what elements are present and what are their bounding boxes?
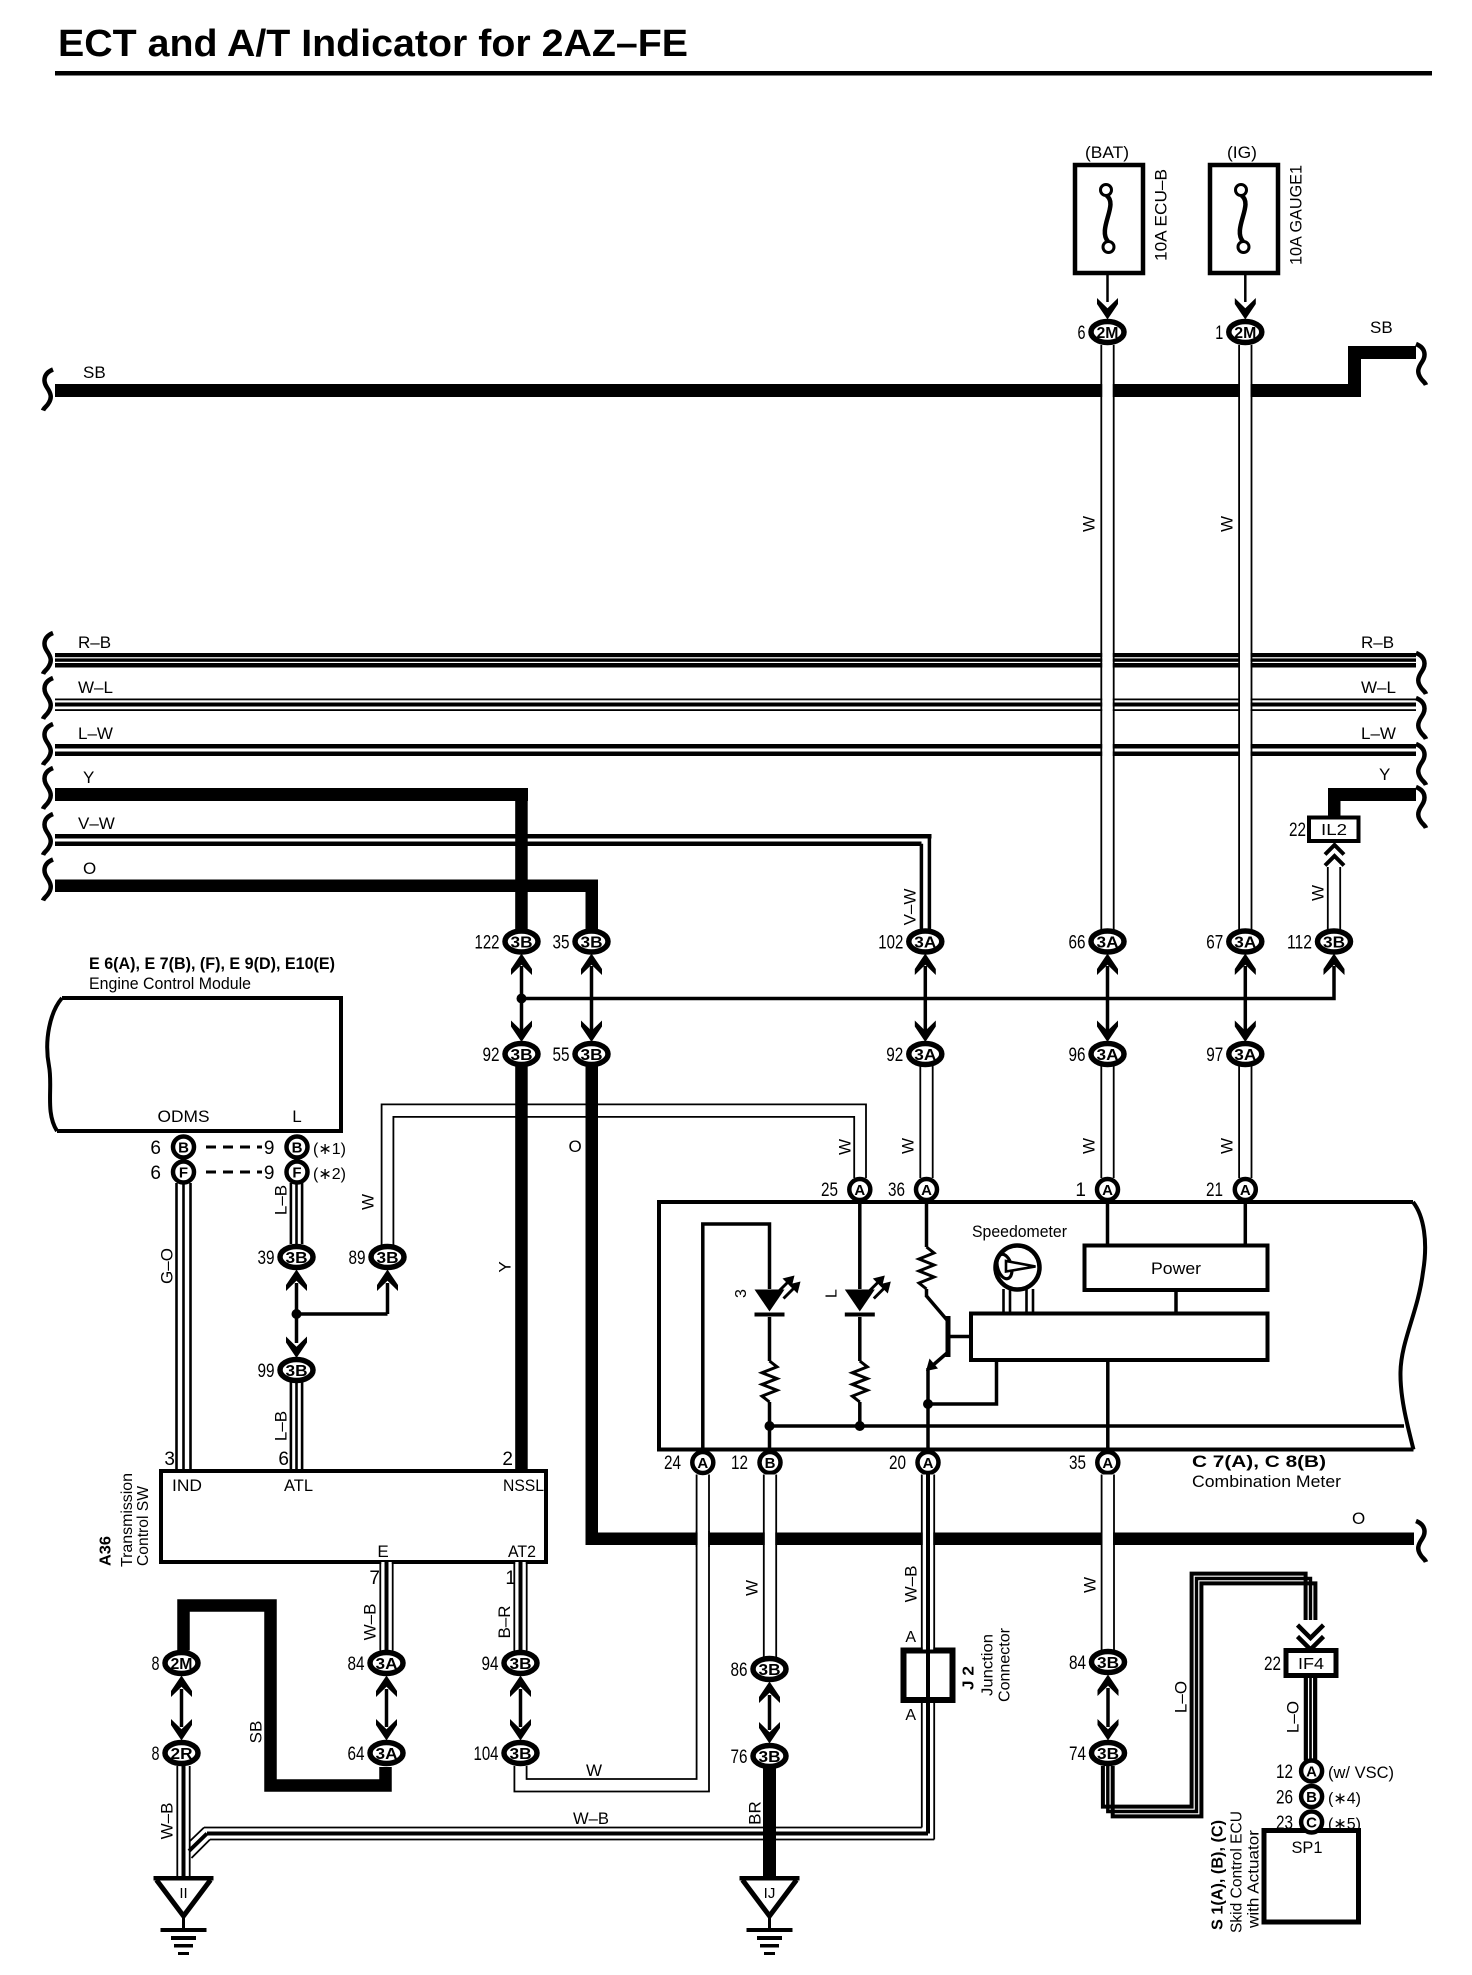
connector 8 2R (165, 1743, 198, 1764)
svg-text:B: B (1306, 1789, 1317, 1806)
svg-text:35: 35 (1069, 1453, 1086, 1474)
svg-text:(IG): (IG) (1227, 143, 1257, 162)
meter pin 20 A (918, 1452, 939, 1473)
wire O (thick, left section) (55, 880, 598, 893)
connector 22 IF4 box (1286, 1651, 1336, 1676)
wire L-B from ECM L to connector 39 (290, 1183, 293, 1244)
svg-text:SB: SB (1370, 318, 1393, 337)
svg-text:F: F (292, 1165, 301, 1182)
svg-text:Transmission: Transmission (119, 1473, 136, 1567)
skid control pin 12 A (w/ VSC) (1301, 1761, 1322, 1782)
wire G-O from ECM ODMS to IND (175, 1183, 178, 1471)
svg-text:(∗2): (∗2) (313, 1166, 346, 1183)
wire O thick vertical from bus to connector 35 and bottom run (586, 880, 599, 930)
svg-text:3A: 3A (376, 1656, 398, 1673)
svg-text:6: 6 (150, 1138, 161, 1159)
svg-text:C 7(A), C 8(B): C 7(A), C 8(B) (1192, 1452, 1326, 1471)
meter pin 25 A (849, 1179, 870, 1200)
connector 55 3B (575, 1044, 608, 1065)
wire Power box to circuit board (1174, 1290, 1178, 1314)
svg-text:35: 35 (553, 933, 570, 954)
pin 9 (F) (*2) of ECM (287, 1162, 308, 1183)
ground IJ (740, 1876, 800, 1881)
connector 35 3B (575, 931, 608, 952)
svg-text:A: A (1102, 1455, 1113, 1472)
wire SB (main horizontal) (55, 384, 1361, 397)
svg-text:O: O (83, 859, 96, 878)
svg-text:3B: 3B (581, 935, 603, 952)
svg-text:10A GAUGE1: 10A GAUGE1 (1287, 165, 1306, 265)
svg-text:36: 36 (888, 1180, 905, 1201)
wire W-B diagonal merges (190, 1828, 204, 1842)
Combination Meter box (659, 1202, 1414, 1450)
connector 102 3A (909, 931, 942, 952)
wire W from 6 2M down to 66 3A (1102, 345, 1113, 930)
arrow down into connector 99 (286, 1337, 307, 1359)
connector 122 3B (505, 931, 538, 952)
svg-text:Y: Y (496, 1261, 515, 1272)
svg-text:W: W (1081, 1577, 1100, 1593)
svg-text:ECT and A/T Indicator for 2AZ–: ECT and A/T Indicator for 2AZ–FE (58, 23, 688, 65)
meter circuit board box (971, 1314, 1268, 1361)
wire break curl O left (43, 860, 53, 901)
svg-text:(∗4): (∗4) (1328, 1791, 1361, 1808)
svg-text:1: 1 (1215, 323, 1223, 344)
wire B-R from pin AT2 to 94 3B (515, 1562, 526, 1651)
meter internal ground rail (770, 1424, 1405, 1428)
wire break curl W-L right (1416, 698, 1426, 739)
svg-text:122: 122 (475, 933, 500, 954)
svg-text:W: W (1218, 1138, 1237, 1154)
svg-text:24: 24 (664, 1453, 681, 1474)
double chevron down into IF4 (1294, 1620, 1327, 1646)
svg-text:22: 22 (1289, 820, 1306, 841)
svg-text:IL2: IL2 (1321, 822, 1347, 839)
svg-text:94: 94 (482, 1654, 499, 1675)
arrow down into 6 2M (1097, 298, 1118, 320)
wire L-W (horizontal bus) (55, 744, 1416, 749)
wire R-B (horizontal bus) (55, 653, 1416, 657)
svg-text:12: 12 (1276, 1762, 1293, 1783)
skid control pin 26 B (*4) (1301, 1786, 1322, 1807)
svg-text:97: 97 (1206, 1045, 1223, 1066)
svg-text:W–L: W–L (78, 678, 113, 697)
connector 64 3A (370, 1743, 403, 1764)
resistor below LED 3 (762, 1361, 777, 1402)
link from 39 to 89 with junction dot (295, 1283, 299, 1343)
wire break curl SB left (43, 370, 53, 411)
svg-text:67: 67 (1206, 933, 1223, 954)
connector 104 3B (504, 1743, 537, 1764)
wire W from chevron down to connector 112 (1329, 867, 1340, 930)
wire L-O from IF4 to skid control 12A (1304, 1676, 1308, 1761)
svg-text:3A: 3A (914, 935, 936, 952)
svg-text:104: 104 (474, 1744, 499, 1765)
junction dot LEDL/rail (855, 1421, 865, 1431)
wire W from connector 89 up and over to meter 25A (382, 1104, 866, 1245)
svg-text:A36: A36 (98, 1536, 115, 1566)
svg-text:112: 112 (1287, 933, 1312, 954)
svg-text:22: 22 (1264, 1654, 1281, 1675)
meter pin 35 A (1097, 1452, 1118, 1473)
svg-text:64: 64 (348, 1744, 365, 1765)
svg-text:IF4: IF4 (1298, 1656, 1324, 1673)
wire Y (thick, left section) (55, 788, 528, 801)
pass-through arrows 94->104 (519, 1689, 523, 1727)
wire W-L (horizontal bus) (55, 699, 1416, 701)
svg-text:Speedometer: Speedometer (972, 1222, 1067, 1241)
svg-text:3A: 3A (376, 1746, 398, 1763)
svg-text:W: W (1218, 516, 1237, 532)
svg-text:L–B: L–B (272, 1185, 291, 1215)
svg-text:(∗5): (∗5) (1328, 1816, 1361, 1833)
svg-text:3B: 3B (510, 1746, 532, 1763)
wire Y thick vertical from bus to connector 122 and NSSL (515, 788, 528, 929)
junction connector J2 box (904, 1651, 953, 1701)
dashed link pin 6B to 9B (206, 1146, 262, 1149)
svg-text:10A ECU–B: 10A ECU–B (1152, 169, 1171, 261)
arrow up into connector 89 (377, 1270, 398, 1292)
svg-text:A: A (1102, 1182, 1113, 1199)
wire W-B horizontal ground run (204, 1827, 922, 1829)
svg-text:2M: 2M (1234, 325, 1256, 342)
fuse 10A GAUGE1 (IG) (1210, 165, 1278, 273)
svg-text:3A: 3A (1234, 1047, 1256, 1064)
svg-text:26: 26 (1276, 1788, 1293, 1809)
svg-text:3B: 3B (1323, 935, 1345, 952)
wire SB hook from 8 2M to 64 3A (184, 1606, 386, 1786)
svg-text:B: B (178, 1140, 189, 1157)
svg-text:W–B: W–B (158, 1803, 177, 1840)
svg-text:W: W (836, 1139, 855, 1155)
wire BR from 76 3B to ground IJ (763, 1767, 776, 1877)
pass-through arrows at x=925.3 (924, 966, 928, 1031)
pass-through arrows 84->64 (385, 1689, 389, 1727)
connector 84 3B (1092, 1652, 1125, 1673)
svg-text:ATL: ATL (284, 1476, 313, 1495)
svg-text:A: A (905, 1629, 916, 1646)
wire break curl O right (1416, 1521, 1426, 1562)
wire 21A to Power box (1244, 1204, 1248, 1246)
svg-text:(w/ VSC): (w/ VSC) (1328, 1763, 1394, 1782)
svg-text:A: A (1306, 1764, 1317, 1781)
connector 97 3A (1229, 1044, 1262, 1065)
wire W 97 3A to 21A (1240, 1066, 1251, 1178)
svg-text:2M: 2M (171, 1656, 193, 1673)
connector 84 3A (370, 1653, 403, 1674)
pass-through arrows 84->74 (1106, 1688, 1110, 1727)
wire 1A to Power box (1106, 1204, 1110, 1246)
svg-text:W: W (1309, 885, 1328, 901)
svg-text:O: O (1352, 1509, 1365, 1528)
svg-text:IJ: IJ (764, 1885, 776, 1902)
svg-text:102: 102 (878, 933, 903, 954)
svg-text:(∗1): (∗1) (313, 1141, 346, 1158)
wire break curl Y left (43, 768, 53, 809)
wire W-B from pin E to 84 3A (381, 1562, 392, 1651)
svg-text:C: C (1306, 1815, 1317, 1832)
wire L-B from connector 99 to ATL (290, 1382, 293, 1471)
svg-text:W–B: W–B (573, 1809, 609, 1828)
svg-text:2: 2 (502, 1449, 513, 1470)
svg-text:A: A (923, 1455, 934, 1472)
svg-text:74: 74 (1069, 1744, 1086, 1765)
junction dot LED3/rail (765, 1421, 775, 1431)
svg-text:(BAT): (BAT) (1085, 143, 1129, 162)
speedometer legs (1002, 1289, 1005, 1314)
meter pin 36 A (916, 1179, 937, 1200)
svg-text:S 1(A), (B), (C): S 1(A), (B), (C) (1210, 1820, 1227, 1930)
svg-text:SB: SB (83, 363, 106, 382)
svg-text:9: 9 (264, 1138, 275, 1159)
svg-text:3B: 3B (1097, 1746, 1119, 1763)
svg-text:AT2: AT2 (508, 1542, 536, 1561)
svg-text:A: A (905, 1707, 916, 1724)
svg-text:3B: 3B (511, 1047, 533, 1064)
svg-text:2M: 2M (1097, 325, 1119, 342)
wire break curl L-W right (1416, 744, 1426, 785)
svg-text:3B: 3B (511, 935, 533, 952)
meter pin 21 A (1235, 1179, 1256, 1200)
emitter branch to circuit board (928, 1360, 997, 1404)
svg-text:3B: 3B (377, 1250, 399, 1267)
svg-text:L–B: L–B (272, 1411, 291, 1441)
svg-text:L–O: L–O (1172, 1681, 1191, 1713)
connector 1 2M (1229, 322, 1262, 343)
wire W-B from 8 2R down to ground II (176, 1766, 178, 1876)
svg-text:3B: 3B (759, 1749, 781, 1766)
svg-text:20: 20 (889, 1453, 906, 1474)
speedometer gauge symbol (996, 1246, 1040, 1290)
svg-text:L–O: L–O (1284, 1701, 1303, 1733)
pass-through arrows 8->8 (180, 1689, 184, 1727)
connector 112 3B (1318, 931, 1351, 952)
wire V-W (horizontal bus) (55, 834, 932, 839)
wire V-W vertical drop to connector 102 (928, 836, 932, 929)
svg-text:IND: IND (172, 1476, 202, 1495)
svg-text:Power: Power (1151, 1259, 1201, 1278)
svg-text:Skid Control ECU: Skid Control ECU (1229, 1811, 1246, 1933)
svg-text:6: 6 (278, 1449, 289, 1470)
wire L-O from 74 3B to IF4 (1103, 1574, 1306, 1807)
pin 6 (B) of ECM (173, 1137, 194, 1158)
wire W from 1 2M down to 67 3A (1240, 345, 1251, 930)
meter internal wire from 36A to resistor (925, 1204, 929, 1247)
Skid Control ECU box SP1 (1264, 1831, 1359, 1923)
wire break curl W-L left (43, 678, 53, 719)
svg-text:23: 23 (1276, 1813, 1293, 1834)
svg-text:2R: 2R (171, 1746, 193, 1763)
wire break curl R-B right (1416, 653, 1426, 694)
svg-text:L: L (823, 1289, 840, 1298)
meter pin 1 A (1097, 1179, 1118, 1200)
connector 67 3A (1229, 931, 1262, 952)
svg-text:W: W (586, 1761, 602, 1780)
svg-text:84: 84 (1069, 1653, 1086, 1674)
svg-text:92: 92 (886, 1045, 903, 1066)
connector 92 3B (505, 1044, 538, 1065)
svg-text:II: II (179, 1885, 187, 1902)
resistor from 36A (919, 1247, 934, 1289)
svg-text:8: 8 (152, 1744, 160, 1765)
pin 6 (F) of ECM (173, 1162, 194, 1183)
svg-text:Connector: Connector (997, 1627, 1014, 1702)
svg-text:1: 1 (1075, 1180, 1086, 1201)
dashed link pin 6F to 9F (206, 1171, 262, 1174)
wire fuse IG to connector 1 2M (1244, 273, 1247, 302)
svg-text:W–L: W–L (1361, 678, 1396, 697)
connector 86 3B (753, 1659, 786, 1680)
svg-text:Control SW: Control SW (135, 1485, 152, 1566)
svg-text:A: A (854, 1182, 865, 1199)
ground II (154, 1876, 214, 1881)
wire fuse BAT to connector 6 2M (1106, 273, 1109, 302)
svg-text:with Actuator: with Actuator (1246, 1829, 1263, 1929)
svg-text:3B: 3B (510, 1656, 532, 1673)
svg-text:3A: 3A (1097, 1047, 1119, 1064)
svg-text:3B: 3B (1097, 1655, 1119, 1672)
connector 6 2M (1091, 322, 1124, 343)
svg-text:8: 8 (152, 1654, 160, 1675)
svg-text:SP1: SP1 (1292, 1838, 1323, 1857)
pass-through arrows at x=521.5 (520, 966, 524, 1031)
indicator LED 3 (755, 1290, 785, 1312)
svg-text:89: 89 (349, 1248, 366, 1269)
svg-text:R–B: R–B (1361, 633, 1394, 652)
connector 92 3A (909, 1044, 942, 1065)
svg-text:E: E (377, 1542, 388, 1561)
svg-text:G–O: G–O (158, 1248, 177, 1284)
wire break curl Y right (1416, 787, 1426, 828)
wire Y (thick, right section to IL2) (1328, 788, 1416, 801)
svg-text:86: 86 (731, 1660, 748, 1681)
svg-text:6: 6 (150, 1163, 161, 1184)
connector 99 3B (280, 1360, 313, 1381)
pass-through arrow at connector 112 (1324, 954, 1345, 976)
svg-text:L: L (292, 1107, 301, 1126)
arrow up into connector 39 (286, 1270, 307, 1292)
wire circuit board to 35A (1106, 1360, 1110, 1448)
wire break curl SB right (1416, 344, 1426, 385)
svg-text:3A: 3A (1097, 935, 1119, 952)
svg-text:A: A (921, 1182, 932, 1199)
Engine Control Module box (57, 998, 341, 1131)
connector 89 3B (371, 1247, 404, 1268)
svg-text:W: W (743, 1580, 762, 1596)
wire break curl R-B left (43, 633, 53, 674)
svg-text:B: B (765, 1455, 776, 1472)
pass-through arrows at x=1107.5 (1106, 966, 1110, 1031)
meter internal wire from 24A up-over to indicator LED 3 (703, 1224, 770, 1448)
meter internal wire from 25A down to indicator LED L (858, 1204, 862, 1289)
skid control pin 23 C (*5) (1301, 1812, 1322, 1833)
connector 8 2M (165, 1653, 198, 1674)
pass-through arrows at x=591.5 (590, 966, 594, 1031)
wire W 92 3A to 36A (921, 1066, 932, 1178)
junction dot below transistor (923, 1399, 933, 1409)
wire O thick bottom horizontal run (586, 1533, 1415, 1546)
svg-text:ODMS: ODMS (158, 1107, 210, 1126)
svg-text:V–W: V–W (78, 814, 115, 833)
svg-text:6: 6 (1078, 323, 1086, 344)
wire break curl V-W left (43, 814, 53, 855)
svg-text:Y: Y (1379, 765, 1390, 784)
svg-text:3B: 3B (286, 1363, 308, 1380)
Power supply box in meter (1085, 1246, 1268, 1291)
svg-text:7: 7 (369, 1568, 380, 1589)
svg-text:A: A (697, 1455, 708, 1472)
svg-text:R–B: R–B (78, 633, 111, 652)
svg-text:84: 84 (348, 1654, 365, 1675)
svg-text:B–R: B–R (495, 1605, 514, 1638)
svg-text:3B: 3B (759, 1662, 781, 1679)
connector 39 3B (280, 1247, 313, 1268)
svg-text:L–W: L–W (78, 724, 113, 743)
svg-text:9: 9 (264, 1163, 275, 1184)
meter pin 24 A (692, 1452, 713, 1473)
Transmission Control SW box A36 (161, 1471, 546, 1562)
svg-text:W: W (1080, 1138, 1099, 1154)
svg-text:L–W: L–W (1361, 724, 1396, 743)
svg-text:Junction: Junction (980, 1634, 997, 1696)
wire W from 104 3B over to meter 24A (514, 1475, 709, 1792)
svg-text:Engine Control Module: Engine Control Module (89, 974, 251, 993)
svg-text:55: 55 (553, 1045, 570, 1066)
svg-text:W: W (359, 1194, 378, 1210)
svg-text:B: B (292, 1140, 303, 1157)
svg-text:12: 12 (731, 1453, 748, 1474)
arrow down into 1 2M (1235, 298, 1256, 320)
svg-text:21: 21 (1206, 1180, 1223, 1201)
wire W 96 3A to 1A (1102, 1066, 1113, 1178)
connector 74 3B (1092, 1743, 1125, 1764)
connector 76 3B (753, 1746, 786, 1767)
svg-text:W: W (1080, 516, 1099, 532)
svg-text:3: 3 (164, 1449, 175, 1470)
svg-text:3B: 3B (286, 1250, 308, 1267)
meter pin 12 B (760, 1452, 781, 1473)
wire W from meter 12B to 86 3B (765, 1475, 776, 1658)
svg-text:W–B: W–B (361, 1604, 380, 1641)
transistor Q (meter driver) (925, 1289, 929, 1297)
svg-text:39: 39 (258, 1248, 275, 1269)
svg-text:25: 25 (821, 1180, 838, 1201)
fuse 10A ECU-B (BAT) (1075, 165, 1143, 273)
svg-text:Combination Meter: Combination Meter (1192, 1472, 1341, 1491)
connector 22 IL2 box (1309, 818, 1359, 842)
svg-text:E 6(A), E 7(B), (F), E 9(D), E: E 6(A), E 7(B), (F), E 9(D), E10(E) (89, 954, 335, 973)
double chevron up into IL2 (1325, 845, 1344, 855)
pass-through arrows at x=1245.3 (1244, 966, 1248, 1031)
svg-text:F: F (179, 1165, 188, 1182)
svg-text:A: A (1240, 1182, 1251, 1199)
pin 9 (B) (*1) of ECM (287, 1137, 308, 1158)
connector 96 3A (1091, 1044, 1124, 1065)
svg-text:W–B: W–B (902, 1566, 921, 1603)
svg-text:76: 76 (731, 1747, 748, 1768)
svg-text:66: 66 (1069, 933, 1086, 954)
svg-text:3A: 3A (914, 1047, 936, 1064)
svg-text:92: 92 (483, 1045, 500, 1066)
svg-text:3A: 3A (1234, 935, 1256, 952)
pass-through arrows 86->76 (768, 1695, 772, 1730)
svg-text:J 2: J 2 (961, 1666, 978, 1690)
svg-text:O: O (569, 1137, 582, 1156)
svg-text:Y: Y (83, 768, 94, 787)
indicator LED L (845, 1290, 875, 1312)
wire W from meter 35A to 84 3B (1103, 1475, 1114, 1651)
wire break curl L-W left (43, 724, 53, 765)
